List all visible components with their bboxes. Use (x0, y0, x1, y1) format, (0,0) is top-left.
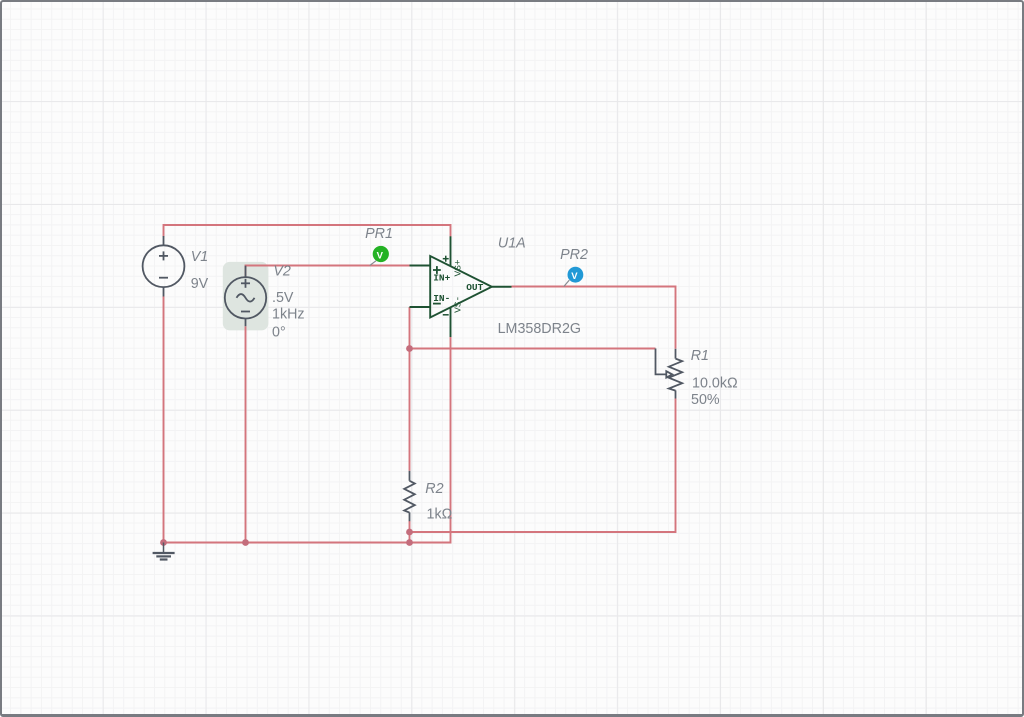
svg-text:VS-: VS- (452, 296, 463, 313)
svg-text:50%: 50% (691, 392, 720, 408)
svg-text:0°: 0° (272, 324, 286, 340)
svg-text:PR1: PR1 (365, 226, 393, 242)
wire: R1 bottom to R2 bottom junction (410, 399, 676, 533)
svg-text:V1: V1 (191, 249, 209, 265)
wire net OUT : op-amp output to R1 top (512, 287, 676, 349)
junction: feedback node at IN- column (406, 345, 413, 352)
svg-text:R2: R2 (425, 481, 443, 497)
svg-text:10.0kΩ: 10.0kΩ (692, 375, 738, 391)
ac source V2 (225, 266, 266, 327)
wire: R2 bottom to ground rail (409, 521, 411, 543)
dc source V1 (143, 236, 185, 297)
svg-text:VS+: VS+ (452, 259, 463, 276)
wire: feedback node to R1 wiper (410, 348, 656, 350)
svg-text:V2: V2 (273, 263, 291, 279)
wire: op-amp IN- down to R2 top (409, 307, 411, 471)
svg-text:LM358DR2G: LM358DR2G (498, 321, 581, 337)
wire net V1+ : top rail from V1 to op-amp VS+ pin (164, 225, 451, 237)
resistor R2 (404, 471, 415, 521)
junction: V1 bottom at ground (160, 539, 167, 546)
ground (153, 543, 175, 560)
potentiometer R1 (656, 349, 683, 399)
svg-text:R1: R1 (691, 348, 709, 364)
wire: V2 bottom to ground rail (245, 326, 247, 542)
svg-text:IN+: IN+ (433, 272, 450, 283)
junction: V2 bottom on ground rail (242, 539, 249, 546)
svg-text:PR2: PR2 (560, 247, 588, 263)
svg-text:1kΩ: 1kΩ (427, 507, 453, 523)
op-amp U1A (410, 236, 512, 337)
svg-text:OUT: OUT (466, 282, 483, 293)
wire net IN+ : V2 top to op-amp IN+ (246, 266, 410, 278)
wire: V1 bottom to ground rail (163, 297, 165, 543)
svg-text:.5V: .5V (272, 290, 294, 306)
probe PR2 (564, 267, 584, 287)
svg-text:U1A: U1A (498, 235, 526, 251)
V2 selection highlight (223, 262, 269, 331)
wire: ground rail to op-amp VS- pin (164, 337, 451, 543)
svg-text:V: V (377, 250, 384, 261)
svg-text:IN-: IN- (433, 293, 450, 304)
junction: R2 column on ground rail (406, 539, 413, 546)
svg-text:V: V (571, 271, 578, 282)
probe PR1 (370, 246, 389, 266)
svg-text:1kHz: 1kHz (272, 307, 305, 323)
junction: R2 bottom / wire to R1 (406, 529, 413, 536)
svg-text:9V: 9V (191, 276, 209, 292)
